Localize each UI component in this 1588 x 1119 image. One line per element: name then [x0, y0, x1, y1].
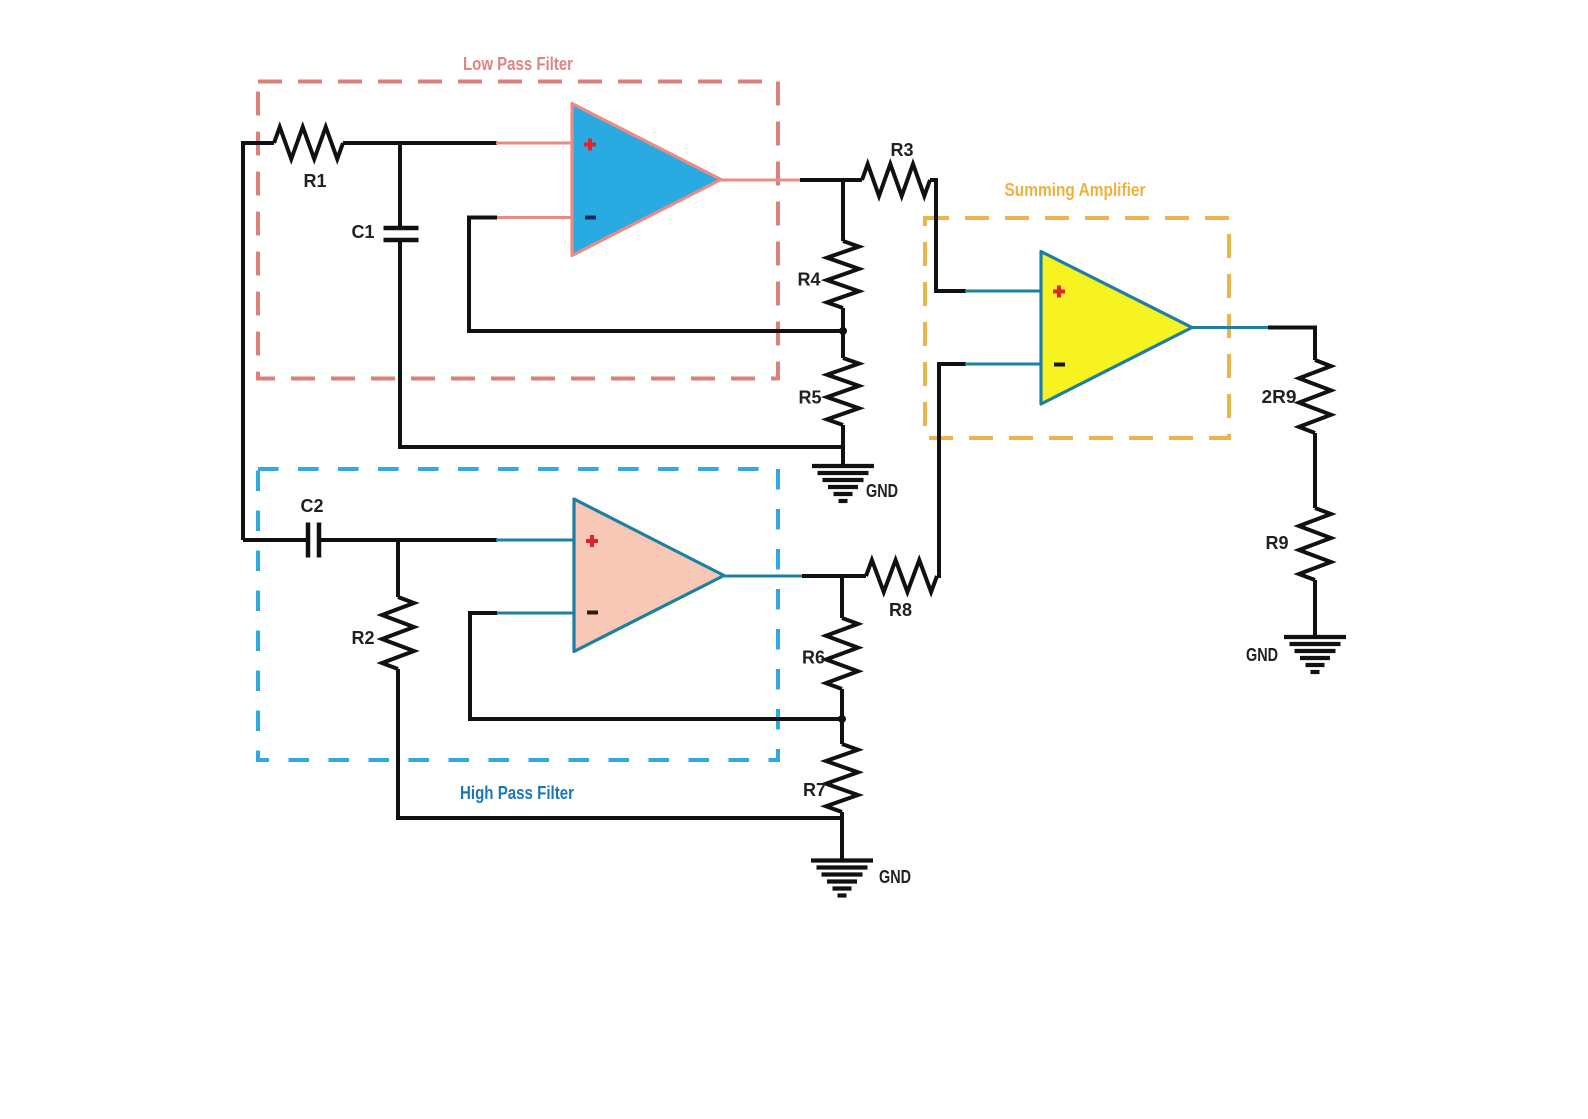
wire: input left vertical: [241, 143, 245, 540]
U1 plus marker: [584, 139, 596, 151]
wire: U2 feedback (minus) black: [470, 613, 842, 719]
wire: U1 output black to R3: [800, 178, 862, 182]
svg-text:High Pass Filter: High Pass Filter: [460, 783, 574, 803]
op-amp U1 (low pass): [572, 104, 721, 256]
svg-text:GND: GND: [1246, 645, 1278, 665]
wire: U3 output teal: [1192, 326, 1269, 329]
wire: R2 bottom to lower rail: [398, 669, 842, 818]
wire: U2 output teal: [724, 575, 803, 578]
Summing dashed box: [925, 218, 1229, 438]
op-amp U3 (summing): [1041, 252, 1192, 405]
capacitor C1: [384, 228, 419, 240]
wire: R2 top vertical: [396, 538, 400, 597]
resistor R9: [1299, 508, 1331, 580]
capacitor C2: [308, 523, 319, 558]
ground GND3: [1284, 637, 1346, 672]
wire: U1 feedback (minus) black: [469, 218, 843, 332]
resistor R4: [827, 241, 859, 308]
resistor R6: [826, 618, 858, 689]
node junction R4/R5: [839, 327, 847, 335]
wire: C2 left stub: [243, 538, 306, 542]
wire: C2 to op-amp U2 plus (black): [321, 538, 497, 542]
svg-text:R7: R7: [803, 780, 826, 800]
wire: R9 to ground: [1313, 580, 1317, 637]
svg-text:R3: R3: [890, 140, 913, 160]
wire: R4-R5 link: [841, 308, 845, 358]
svg-text:R5: R5: [798, 388, 821, 408]
wire: C1 top vertical: [398, 141, 402, 226]
wire: summing minus teal: [965, 363, 1042, 366]
resistor R7: [826, 744, 858, 812]
svg-text:C2: C2: [300, 496, 323, 516]
wire: R6-R7 link: [840, 689, 844, 744]
wire: U2 minus input teal: [496, 612, 575, 615]
wire: R5 to ground: [841, 425, 845, 466]
wire: U1 output pink: [721, 179, 801, 182]
svg-text:GND: GND: [866, 481, 898, 501]
svg-text:GND: GND: [879, 867, 911, 887]
node junction R6/R7: [838, 715, 846, 723]
wire: U2 plus input teal: [496, 539, 575, 542]
op-amp U2 (high pass): [574, 499, 724, 652]
wire: R8 to summing minus input: [937, 364, 966, 576]
svg-text:C1: C1: [351, 222, 374, 242]
wire: R1 to op-amp U1 plus (black part): [343, 141, 497, 145]
svg-text:R2: R2: [351, 628, 374, 648]
svg-text:R8: R8: [889, 600, 912, 620]
resistor R5: [827, 358, 859, 425]
U2 plus marker: [586, 535, 598, 547]
wire: U1 plus input (pink part): [496, 142, 573, 145]
U3 minus marker: [1054, 363, 1065, 367]
wire: R3 to summing plus input: [930, 180, 966, 291]
wire: summing plus teal: [965, 290, 1042, 293]
svg-text:R6: R6: [802, 648, 825, 668]
wire: 2R9 to R9: [1313, 433, 1317, 508]
U3 plus marker: [1053, 286, 1065, 298]
svg-text:Low Pass Filter: Low Pass Filter: [463, 54, 573, 74]
wire: R6 top vertical: [840, 574, 844, 618]
resistor R3: [862, 164, 930, 196]
resistor R8: [866, 560, 937, 592]
svg-text:R4: R4: [797, 270, 820, 290]
wire: R7 to ground: [840, 812, 844, 860]
resistor R2: [382, 597, 414, 669]
wire: R4 top vertical: [841, 178, 845, 241]
svg-text:2R9: 2R9: [1262, 387, 1297, 407]
svg-text:R9: R9: [1265, 533, 1288, 553]
svg-text:Summing Amplifier: Summing Amplifier: [1005, 180, 1146, 200]
wire: C1 bottom vertical to ground rail: [400, 242, 843, 447]
U2 minus marker: [587, 611, 598, 615]
wire: U2 output black to R8: [802, 574, 866, 578]
ground GND2: [811, 861, 873, 896]
resistor R1: [274, 127, 343, 159]
wire: U1 minus input (pink part): [496, 216, 573, 219]
LPF dashed box: [258, 82, 778, 379]
ground GND1: [812, 466, 874, 501]
resistor 2R9: [1299, 360, 1331, 433]
wire: U3 output black to 2R9: [1268, 328, 1315, 361]
HPF dashed box: [258, 469, 778, 760]
wire: R1 left stub: [241, 141, 274, 145]
U1 minus marker: [585, 216, 596, 220]
svg-text:R1: R1: [303, 171, 326, 191]
